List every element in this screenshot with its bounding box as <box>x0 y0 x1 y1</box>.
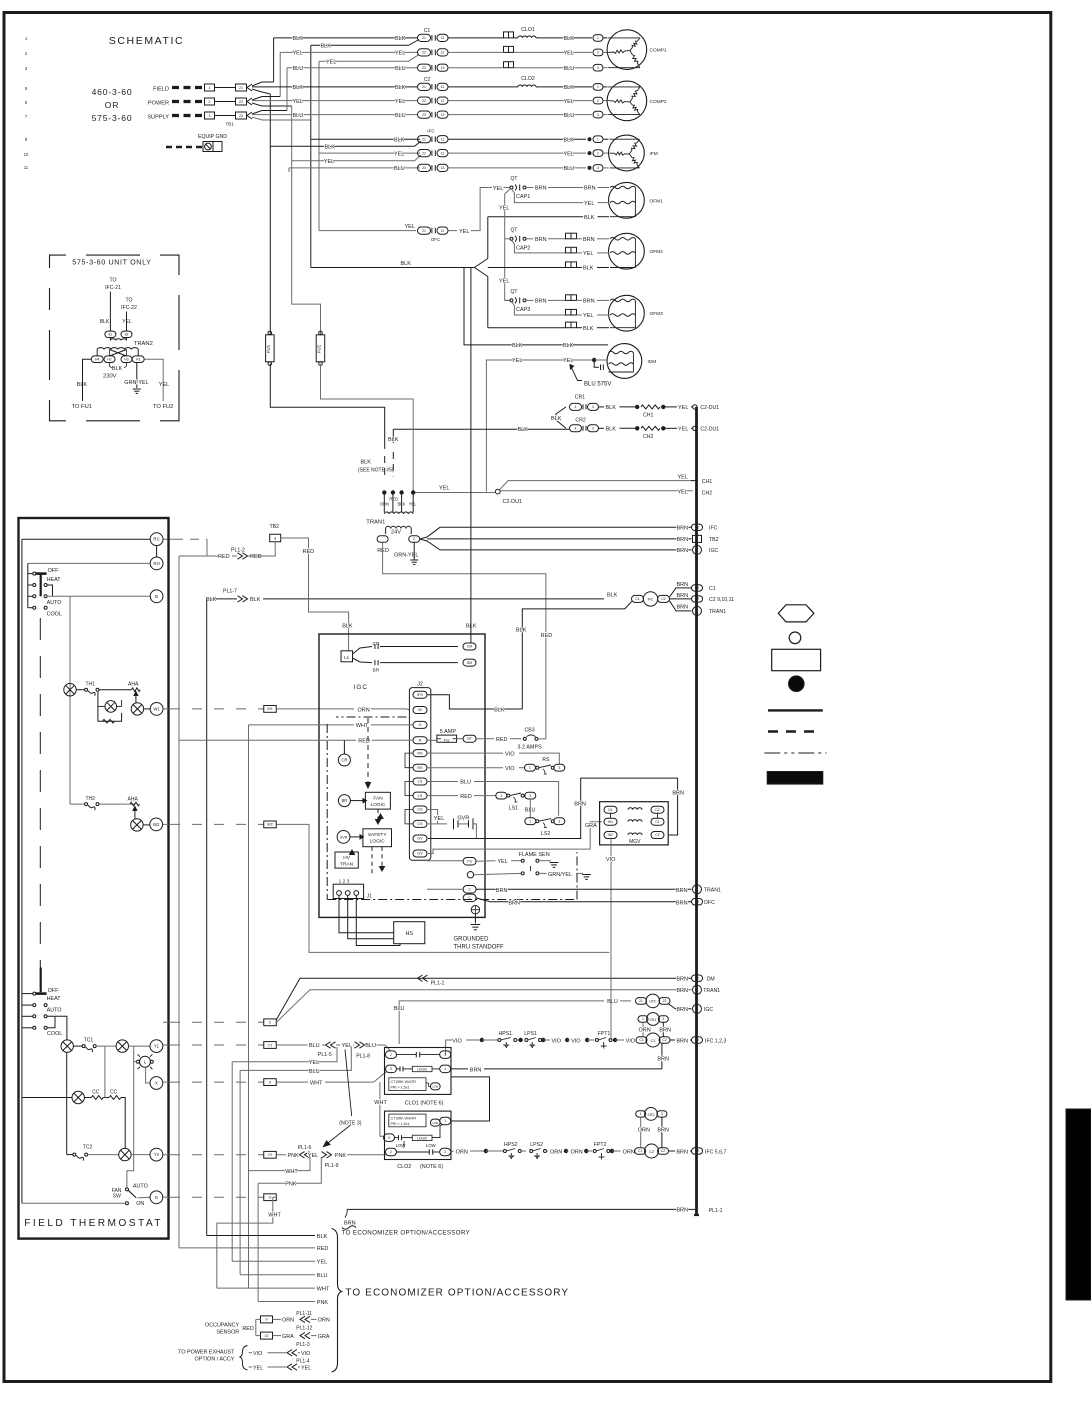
wire to TRAN2 H2 <box>126 312 128 332</box>
wire econ BLK row <box>207 1235 315 1237</box>
MGV coil 1 <box>628 808 642 810</box>
svg-text:AHA: AHA <box>128 797 139 803</box>
wire RT to CB3 <box>476 738 494 740</box>
svg-text:CC: CC <box>110 1090 118 1096</box>
wire vertical YEL feeder to FU2 <box>292 106 321 335</box>
svg-text:TO FU2: TO FU2 <box>153 404 174 410</box>
svg-text:(NOTE 6): (NOTE 6) <box>420 1164 443 1170</box>
black index tab <box>1066 1109 1091 1300</box>
contact IFC pole2 <box>418 150 431 157</box>
bus end PL1-1 <box>694 1214 699 1216</box>
svg-text:BRN: BRN <box>677 605 689 611</box>
wire R pin RED <box>179 739 356 741</box>
svg-text:2: 2 <box>597 99 599 103</box>
svg-text:TRAN1: TRAN1 <box>366 519 385 525</box>
svg-text:3: 3 <box>597 66 599 70</box>
wire econ PNK row <box>258 1301 315 1303</box>
svg-text:BLU: BLU <box>564 66 575 72</box>
svg-text:BRN: BRN <box>676 976 688 982</box>
svg-text:BLK: BLK <box>583 266 594 272</box>
svg-text:IGC: IGC <box>704 1007 713 1013</box>
svg-text:ORN: ORN <box>318 1318 330 1324</box>
svg-text:BLK: BLK <box>293 85 304 91</box>
contactor coil C2 <box>635 1148 646 1155</box>
wire W2 plug to MGV riser <box>276 824 609 952</box>
svg-text:C2: C2 <box>662 1038 666 1042</box>
bus terminal TRAN1 lower <box>693 985 702 994</box>
svg-text:LS: LS <box>418 780 423 784</box>
svg-text:12: 12 <box>695 976 699 980</box>
MGV terminal W2 <box>604 832 617 839</box>
field power lead L3 <box>172 114 204 117</box>
svg-text:CR: CR <box>373 641 380 647</box>
terminal 21 <box>236 84 247 91</box>
transformer TRAN2 secondary <box>109 338 111 341</box>
burner ground row <box>467 872 473 878</box>
svg-text:RED: RED <box>496 737 508 743</box>
terminal block TB1 terminal 1 <box>205 84 215 91</box>
svg-text:TB2: TB2 <box>709 537 719 543</box>
svg-text:C2-DU1: C2-DU1 <box>700 427 719 433</box>
svg-text:G: G <box>419 723 422 727</box>
wire row1 CLO1 to motor <box>536 37 592 39</box>
wire row1 contact to CLO1 <box>448 37 504 39</box>
svg-text:CLO1 (NOTE 6): CLO1 (NOTE 6) <box>405 1101 444 1107</box>
svg-text:21: 21 <box>422 229 426 233</box>
wire row2b YEL tap <box>319 55 419 62</box>
wire row1b BLK tap <box>311 40 419 46</box>
wire YEL econ drop <box>232 1047 337 1062</box>
wire econ WHT row <box>217 1287 315 1289</box>
svg-text:C: C <box>696 609 699 613</box>
J2 pin RS2 <box>413 764 427 771</box>
svg-text:RED: RED <box>218 554 230 560</box>
wire TRAN2 to FU2 <box>144 359 163 401</box>
wire GRA PL1-3 <box>273 1335 282 1337</box>
svg-text:2: 2 <box>209 100 211 104</box>
svg-text:BLU: BLU <box>395 113 406 119</box>
wire OFM1 YEL <box>512 189 584 203</box>
svg-text:TC2: TC2 <box>83 1145 93 1151</box>
wire vertical BLU feeder x287 <box>286 68 288 111</box>
wire RC common drop <box>21 539 23 1203</box>
wire CH1 to bus <box>663 406 677 408</box>
limit switch LS1 <box>496 792 507 799</box>
svg-text:PL1-1: PL1-1 <box>431 981 445 987</box>
svg-text:BLK: BLK <box>494 708 505 714</box>
svg-text:BRN: BRN <box>672 791 684 797</box>
svg-text:TRAN2: TRAN2 <box>134 341 153 347</box>
svg-text:COMP2: COMP2 <box>650 99 667 105</box>
svg-text:C2: C2 <box>695 1149 699 1153</box>
svg-text:BRN: BRN <box>677 548 689 554</box>
svg-text:PRI > 1.5±1: PRI > 1.5±1 <box>391 1086 410 1090</box>
svg-text:C2-DU1: C2-DU1 <box>503 499 522 505</box>
dashed wire Y2 to plug <box>163 1154 169 1156</box>
wire PNK drop from PL1-9 <box>258 1157 321 1183</box>
limit switch LS2 <box>525 818 536 825</box>
svg-text:ORN: ORN <box>639 1028 651 1034</box>
capacitor switch QT2 CAP2 <box>505 238 510 240</box>
wire VIO PL1-4 <box>249 1352 252 1354</box>
svg-text:LOGIC: LOGIC <box>371 802 386 808</box>
svg-text:TRAN1: TRAN1 <box>703 988 720 994</box>
svg-text:BLK: BLK <box>321 44 332 50</box>
CLO2 X contact <box>398 1135 400 1140</box>
svg-text:3: 3 <box>529 794 531 798</box>
svg-text:OFC: OFC <box>431 237 440 242</box>
svg-text:YEL: YEL <box>308 1153 318 1159</box>
wire row1 BLK to C1 contact <box>274 37 418 39</box>
svg-text:IFC 5,6,7: IFC 5,6,7 <box>705 1149 726 1155</box>
svg-text:OFM1: OFM1 <box>650 198 664 204</box>
wire VIO row to CLO1 <box>446 1040 452 1055</box>
CLO1 pin X <box>386 1065 397 1073</box>
motor IFM <box>609 135 645 171</box>
CLO1 pin 2 <box>386 1051 397 1059</box>
svg-text:C2: C2 <box>695 597 699 601</box>
wire PL1-7 BLK to IFC coil <box>263 598 604 600</box>
wire CR1 row to CH1 <box>599 406 605 408</box>
svg-text:CR: CR <box>341 758 347 763</box>
indicator W2 lamp <box>131 819 143 831</box>
svg-text:FLAME SEN: FLAME SEN <box>519 852 550 858</box>
wire OFC to QT1 riser <box>448 230 457 232</box>
contact C1 pole2 <box>418 49 431 56</box>
wire row9b BLK tap <box>270 141 421 146</box>
logic link dashes <box>367 718 369 788</box>
svg-text:BRN: BRN <box>676 1149 688 1155</box>
svg-text:BLU: BLU <box>365 1043 376 1049</box>
wire row9 to motor <box>448 138 586 140</box>
wire FU2 to TRAN1 YEL tap <box>321 364 414 493</box>
svg-text:TO ECONOMIZER OPTION/ACCESSORY: TO ECONOMIZER OPTION/ACCESSORY <box>345 1288 569 1299</box>
legend dot <box>789 676 805 692</box>
svg-text:4: 4 <box>575 427 577 431</box>
svg-text:CT BRK W/ATR: CT BRK W/ATR <box>391 1116 417 1120</box>
wire W1 plug to IGC W pin <box>276 708 354 710</box>
contact BR on BM row <box>374 660 376 665</box>
adjustable heat anticipator AHA1 <box>132 688 141 692</box>
wire row5 to motor <box>448 100 592 102</box>
svg-text:YEL: YEL <box>395 51 405 57</box>
thermostat terminal B <box>150 590 163 603</box>
svg-text:3: 3 <box>597 113 599 117</box>
svg-text:GRN/YEL: GRN/YEL <box>548 872 572 878</box>
svg-text:BRN: BRN <box>584 186 596 192</box>
svg-text:PL1-1: PL1-1 <box>709 1208 723 1214</box>
svg-text:PL1-5: PL1-5 <box>318 1052 332 1058</box>
svg-text:FU2: FU2 <box>317 344 322 353</box>
legend solid line <box>768 709 823 711</box>
CLO1 LOW oval <box>430 1083 440 1090</box>
svg-text:(SEE NOTE #5): (SEE NOTE #5) <box>358 468 394 474</box>
transformer TRAN2 primary <box>97 348 138 350</box>
fanout from terminal 21 <box>252 82 274 86</box>
svg-text:BRN: BRN <box>677 526 689 532</box>
svg-text:CC: CC <box>92 1090 100 1096</box>
wire GV1 BRN loop to MGV C2 <box>428 778 678 838</box>
svg-text:J1: J1 <box>367 894 373 900</box>
wire row11 BLU to IFC contact <box>289 167 420 169</box>
svg-text:YEL: YEL <box>564 99 574 105</box>
svg-text:TB1: TB1 <box>226 122 235 127</box>
svg-text:WHT: WHT <box>310 1081 323 1087</box>
J2 pin W <box>413 707 427 714</box>
CLO2 bottom contact <box>428 1149 430 1154</box>
svg-text:W2: W2 <box>267 823 273 827</box>
wire AUTO to TC1 <box>47 1016 67 1039</box>
svg-text:YEL: YEL <box>326 59 336 65</box>
svg-text:1 2 3: 1 2 3 <box>339 879 350 885</box>
MGV terminal C2 <box>651 832 664 839</box>
wire heat bus drop <box>69 596 71 804</box>
svg-text:IFC: IFC <box>427 129 435 134</box>
wire TRAN1 RED to CB3 <box>383 542 546 739</box>
wire OFC to bus IGC <box>668 1004 692 1009</box>
bus terminal IFC 1 2 3 <box>692 1037 703 1043</box>
svg-text:LS1: LS1 <box>509 806 518 812</box>
motor OFM2 <box>609 233 645 269</box>
svg-text:BLU: BLU <box>607 999 618 1005</box>
legend dash-dot line <box>764 752 826 754</box>
svg-text:OR: OR <box>105 100 120 110</box>
wire WHT CLO2 drop <box>380 1082 385 1136</box>
svg-text:11: 11 <box>441 85 445 89</box>
wire B row <box>47 595 150 597</box>
contact OFC <box>418 227 431 234</box>
wire FS YEL to flame rod <box>476 860 495 863</box>
svg-text:ORN: ORN <box>638 1128 650 1134</box>
svg-text:LOGIC: LOGIC <box>370 839 385 845</box>
svg-text:BRN: BRN <box>677 537 689 543</box>
wire OFM3 YEL <box>512 302 566 315</box>
terminal IFM-1 <box>588 138 591 141</box>
label BLK 230V <box>110 363 113 369</box>
svg-text:PL1-6: PL1-6 <box>298 1145 312 1151</box>
relay L1 <box>341 651 353 662</box>
svg-text:BLK: BLK <box>607 593 618 599</box>
wire QT3 to OFM3 BRN <box>526 299 534 301</box>
svg-text:C: C <box>269 1021 272 1025</box>
wire OFM BLK feeder <box>311 267 475 269</box>
wire LS1 BLU upper <box>427 781 458 783</box>
svg-text:CAP2: CAP2 <box>516 245 530 251</box>
svg-text:CM: CM <box>467 645 472 649</box>
TRAN1 primary taps <box>383 491 386 494</box>
svg-text:C: C <box>696 1007 699 1011</box>
svg-text:GROUNDED: GROUNDED <box>454 937 490 943</box>
svg-text:BLU 575V: BLU 575V <box>584 382 611 388</box>
svg-text:BRN: BRN <box>659 1028 671 1034</box>
svg-text:C2: C2 <box>695 586 699 590</box>
module CLO1 box <box>385 1048 452 1095</box>
svg-text:21: 21 <box>422 137 426 141</box>
svg-text:VIO: VIO <box>626 1038 636 1044</box>
wire TB2 to L1 RED <box>281 538 349 651</box>
plug arrow 23 <box>247 112 252 119</box>
svg-text:1: 1 <box>444 1067 446 1071</box>
svg-text:PL1-11: PL1-11 <box>296 1311 312 1317</box>
svg-text:QT: QT <box>511 289 518 295</box>
svg-text:11: 11 <box>441 137 445 141</box>
bus terminal TRAN1 <box>693 606 702 615</box>
svg-text:BLK: BLK <box>564 137 575 143</box>
svg-text:X: X <box>269 1080 272 1084</box>
svg-text:YEL: YEL <box>512 358 522 364</box>
svg-text:4: 4 <box>575 405 577 409</box>
svg-text:3: 3 <box>444 1150 446 1154</box>
svg-text:FU: FU <box>444 737 449 742</box>
indicator lamp L <box>140 1056 151 1067</box>
svg-text:WHT: WHT <box>374 1100 387 1106</box>
svg-text:W1: W1 <box>267 707 273 711</box>
svg-text:OFF: OFF <box>48 988 59 994</box>
J2 pin IFO <box>413 691 427 698</box>
svg-text:YEL: YEL <box>439 486 449 492</box>
CLO1 X contact <box>399 1066 401 1071</box>
wire BLK tap column 2 <box>392 429 394 443</box>
wire C2-DU1 to CH2 terminal <box>500 490 693 492</box>
svg-text:23: 23 <box>422 113 426 117</box>
TRAN2 secondary terminal 81 <box>105 331 116 337</box>
CLO1 pin 1 <box>440 1065 451 1073</box>
wire OFC row YEL <box>319 230 416 232</box>
CLO2 heater coil <box>518 85 536 87</box>
svg-text:22: 22 <box>422 51 426 55</box>
J2 pin pair brackets <box>405 753 413 768</box>
svg-text:OFM2: OFM2 <box>650 249 664 255</box>
svg-text:BRN: BRN <box>508 901 520 907</box>
svg-text:W2: W2 <box>608 833 613 837</box>
svg-text:TRAN1: TRAN1 <box>704 888 721 894</box>
svg-text:RED: RED <box>317 1246 329 1252</box>
svg-text:11: 11 <box>441 36 445 40</box>
svg-text:HPS1: HPS1 <box>499 1031 513 1037</box>
transformer box HV TRAN <box>335 852 358 868</box>
svg-text:LS: LS <box>418 794 423 798</box>
J2 pin LS1 <box>413 778 427 785</box>
plug arrow 21 <box>247 84 252 91</box>
wire R pin to FU <box>427 739 437 741</box>
svg-text:YEL: YEL <box>253 1365 263 1371</box>
svg-text:BRN: BRN <box>677 582 689 588</box>
svg-text:VIO: VIO <box>253 1351 262 1357</box>
svg-text:W2: W2 <box>153 822 160 827</box>
module HS <box>394 922 425 944</box>
svg-text:CLO1: CLO1 <box>521 27 535 33</box>
contact IFC pole3 <box>418 164 431 171</box>
CLO1 top contact <box>415 1052 417 1057</box>
svg-text:YEL: YEL <box>493 186 503 192</box>
CLO2 LOW oval <box>430 1119 440 1126</box>
svg-text:2: 2 <box>390 1150 392 1154</box>
TRAN2 secondary terminal 82 <box>121 331 132 337</box>
svg-text:QT: QT <box>511 176 518 182</box>
svg-text:GRA: GRA <box>318 1334 330 1340</box>
svg-text:LOW: LOW <box>432 1121 438 1125</box>
heater CH1 <box>641 405 660 409</box>
bus terminal IGC lower <box>693 1004 702 1013</box>
label BLU 575V <box>570 365 582 381</box>
wire TB1-1 to 21 <box>215 87 236 89</box>
svg-text:C1: C1 <box>638 1149 642 1153</box>
bus terminal IGC <box>693 545 702 554</box>
auxiliary CR1 coil above C1 <box>638 1016 648 1022</box>
wire econ YEL row <box>232 1260 315 1262</box>
svg-text:CB3: CB3 <box>525 728 535 734</box>
svg-text:YEL: YEL <box>583 313 593 319</box>
wire ORN row from CLO2 <box>451 1151 454 1152</box>
contact C1 pole3 <box>418 64 431 71</box>
svg-text:GRN-YEL: GRN-YEL <box>124 380 148 386</box>
svg-text:BLK: BLK <box>394 137 405 143</box>
safety logic tails <box>371 847 373 876</box>
svg-text:PL1-8: PL1-8 <box>356 1054 370 1060</box>
svg-text:RS: RS <box>542 757 550 763</box>
CLO2 CT box <box>389 1114 426 1127</box>
svg-text:VIO: VIO <box>452 1038 462 1044</box>
svg-text:TRAN1: TRAN1 <box>709 609 726 615</box>
svg-text:AUTO: AUTO <box>133 1183 148 1189</box>
MGV internal links <box>610 813 612 818</box>
svg-text:YEL: YEL <box>678 489 688 495</box>
svg-text:BLK: BLK <box>100 319 110 325</box>
logic box FAN LOGIC <box>365 792 390 809</box>
svg-text:22: 22 <box>422 151 426 155</box>
wire RH to mode switch <box>28 562 150 564</box>
svg-text:WHT: WHT <box>317 1286 330 1292</box>
svg-text:BLU: BLU <box>309 1043 320 1049</box>
dashed wire W1 to plug <box>163 708 169 710</box>
svg-text:GVR: GVR <box>340 836 348 840</box>
svg-text:RED: RED <box>242 1326 253 1332</box>
svg-text:RED: RED <box>303 549 315 555</box>
wire QT2 to OFM2 BRN <box>526 238 534 240</box>
thermostat terminal Y2 <box>150 1148 163 1161</box>
svg-text:SCHEMATIC: SCHEMATIC <box>109 35 184 47</box>
wire row3 to motor <box>448 67 504 69</box>
svg-text:BLK: BLK <box>395 85 406 91</box>
svg-text:C2: C2 <box>424 77 431 83</box>
svg-text:FPT1: FPT1 <box>598 1031 611 1037</box>
svg-text:CT BRK W/ATR: CT BRK W/ATR <box>391 1080 417 1084</box>
svg-text:W: W <box>418 708 422 712</box>
svg-text:OFF: OFF <box>48 568 59 574</box>
overload CLO1 contact row1 <box>504 32 514 38</box>
svg-text:BLK: BLK <box>512 343 523 349</box>
legend heavy bar <box>767 772 823 785</box>
svg-text:COOL: COOL <box>47 1031 62 1037</box>
svg-text:MGV: MGV <box>629 839 641 845</box>
svg-text:21: 21 <box>422 85 426 89</box>
wire CC mid tap <box>104 1046 106 1097</box>
svg-text:BLK: BLK <box>342 624 353 630</box>
svg-text:IGC: IGC <box>354 684 368 691</box>
svg-text:YEL: YEL <box>159 382 169 388</box>
svg-text:BRN: BRN <box>470 1067 482 1073</box>
svg-text:13: 13 <box>441 166 445 170</box>
svg-text:ORN: ORN <box>623 1149 635 1155</box>
wire row5 YEL to C2 contact <box>252 100 418 102</box>
wire BLK feed to CR2 <box>393 428 569 430</box>
svg-text:BLU: BLU <box>309 1069 320 1075</box>
plug arrow 22 <box>247 98 252 105</box>
svg-text:OPTION / ACCY: OPTION / ACCY <box>195 1357 235 1363</box>
svg-text:BLU: BLU <box>564 113 575 119</box>
CLO2 pin 1 <box>440 1117 451 1125</box>
wire econ RED row <box>179 1247 315 1249</box>
